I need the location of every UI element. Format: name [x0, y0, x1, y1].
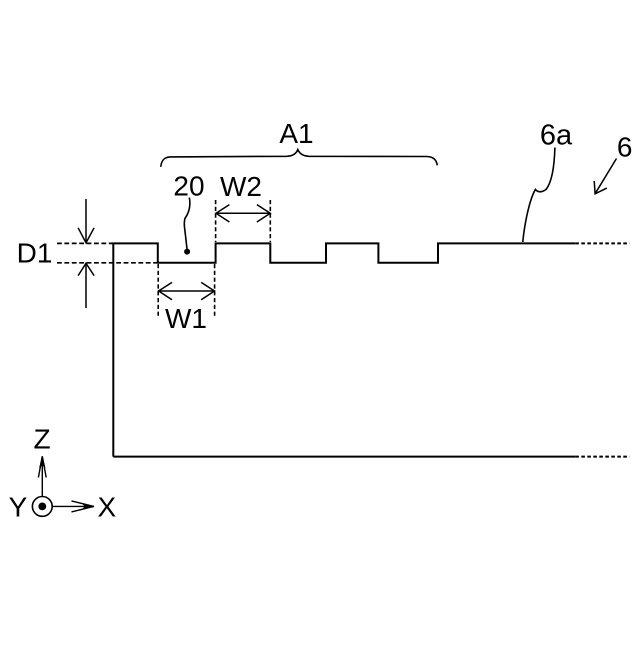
svg-text:X: X — [97, 491, 116, 522]
W2 right dashed extension line — [269, 200, 271, 242]
W2 double arrow — [216, 205, 270, 222]
D1 upper dashed extension line — [57, 242, 113, 244]
Z axis arrow — [38, 456, 46, 496]
W1 double arrow — [159, 282, 215, 299]
svg-text:W1: W1 — [165, 303, 207, 334]
D1 lower dashed extension line — [57, 262, 157, 264]
svg-text:D1: D1 — [17, 238, 53, 269]
substrate profile outline with grooves — [113, 243, 575, 456]
W2 left dashed extension line — [215, 200, 217, 242]
W1 left dashed extension line — [157, 264, 159, 316]
svg-text:6a: 6a — [540, 120, 573, 152]
dot at end of 20 leader — [184, 249, 190, 255]
origin center dot — [38, 503, 46, 511]
D1 lower arrow (pointing up) — [78, 263, 94, 308]
svg-text:Z: Z — [33, 423, 50, 454]
W1 right dashed extension line — [214, 264, 216, 316]
arrow from 6 pointing to surface — [594, 159, 616, 194]
svg-text:20: 20 — [173, 170, 204, 201]
svg-text:Y: Y — [9, 491, 28, 522]
svg-text:6: 6 — [617, 131, 633, 162]
brace over region A1 — [161, 150, 438, 167]
bottom edge dashed continuation — [575, 456, 629, 458]
svg-text:W2: W2 — [220, 171, 262, 202]
leader line from 6a to top surface — [523, 148, 555, 243]
leader line from 20 — [184, 198, 190, 250]
top surface dashed continuation — [575, 242, 629, 244]
svg-text:A1: A1 — [279, 118, 313, 149]
X axis arrow — [52, 501, 94, 512]
D1 upper arrow (pointing down) — [78, 199, 94, 243]
substrate bottom edge — [113, 456, 575, 458]
coordinate origin circle (Y axis out of page) — [32, 497, 52, 517]
